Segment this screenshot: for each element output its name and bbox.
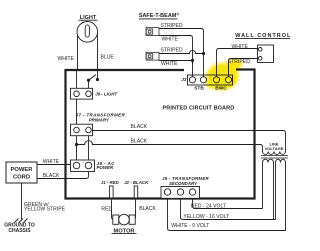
svg-text:WHITE: WHITE: [232, 44, 249, 50]
wall control box: [258, 45, 274, 63]
wire striped sensor1: [159, 29, 204, 54]
wire white bulb lead: [76, 70, 78, 94]
svg-text:CORD: CORD: [13, 175, 30, 181]
safe-t-beam sensor 1: [146, 28, 159, 36]
svg-text:YELLOW STRIPE: YELLOW STRIPE: [24, 206, 66, 212]
svg-text:WHITE: WHITE: [58, 56, 75, 62]
svg-text:STB: STB: [194, 86, 204, 92]
wire black lower with hop to transformer: [77, 141, 263, 152]
svg-text:J3: J3: [181, 77, 186, 82]
wire striped sensor2 with hop: [159, 50, 204, 76]
underline LIGHT: [79, 19, 98, 21]
wire red to motor: [112, 200, 114, 219]
connector J1: [110, 186, 114, 198]
svg-text:STRIPED: STRIPED: [228, 59, 250, 65]
junction dot A: [87, 79, 90, 82]
svg-text:VOLTAGE: VOLTAGE: [265, 146, 284, 151]
printed circuit board outline: [66, 70, 255, 199]
transformer core: [261, 156, 288, 159]
svg-text:RED - 24 VOLT: RED - 24 VOLT: [191, 203, 226, 209]
svg-text:PRIMARY: PRIMARY: [89, 117, 110, 122]
svg-text:LIGHT: LIGHT: [80, 15, 97, 21]
wire white sensor2: [159, 61, 193, 65]
connector J8 - AC POWER: [71, 160, 95, 172]
svg-text:POWER: POWER: [97, 165, 114, 170]
yellow highlighter blob over BWC terminals: [206, 56, 244, 90]
svg-text:BLACK: BLACK: [131, 124, 148, 130]
light bulb LIGHT: [77, 22, 98, 43]
connector J3: [188, 75, 233, 85]
svg-text:WALL CONTROL: WALL CONTROL: [235, 33, 291, 39]
bulb filament: [85, 25, 89, 37]
wire wall control white: [217, 49, 261, 77]
svg-text:STRIPED: STRIPED: [161, 23, 183, 29]
chassis ground symbol: [15, 219, 28, 223]
wire green ground: [21, 183, 23, 219]
safe-t-beam sensor 2: [146, 52, 159, 60]
svg-text:BLACK: BLACK: [139, 206, 156, 212]
connector J2: [134, 186, 138, 198]
svg-text:SAFE-T-BEAM®: SAFE-T-BEAM®: [139, 12, 180, 20]
underline SAFE-T-BEAM: [139, 18, 178, 20]
svg-text:SECONDARY: SECONDARY: [169, 181, 198, 186]
wire black upper to transformer: [89, 131, 286, 152]
wire white 0 volt: [168, 195, 286, 231]
svg-text:BLACK: BLACK: [131, 139, 148, 145]
underline MOTOR: [112, 233, 137, 235]
svg-text:MOTOR: MOTOR: [113, 228, 134, 234]
svg-text:BLACK: BLACK: [43, 173, 60, 179]
svg-text:BWC: BWC: [215, 86, 227, 92]
junction dot B: [96, 78, 99, 81]
connector J7 - TRANSFORMER PRIMARY: [71, 124, 93, 136]
underline WALL CONTROL: [235, 38, 290, 40]
motor MOTOR: [113, 215, 119, 224]
power cord box: [6, 162, 37, 183]
transformer secondary winding left: [263, 159, 274, 219]
wire yellow 16 volt: [181, 195, 276, 220]
svg-text:YELLOW - 16 VOLT: YELLOW - 16 VOLT: [183, 214, 229, 220]
svg-text:J9 - LIGHT: J9 - LIGHT: [95, 92, 117, 97]
wire black power cord to J8: [37, 168, 89, 178]
svg-text:STRIPED: STRIPED: [161, 48, 183, 54]
wire wall control striped: [229, 59, 261, 77]
junction dot black: [75, 143, 78, 146]
wire J7 left to J8 left: [76, 130, 78, 166]
connector J9 - LIGHT: [71, 88, 93, 99]
connector J5 - TRANSFORMER SECONDARY: [161, 187, 200, 199]
svg-text:CHASSIS: CHASSIS: [8, 228, 31, 234]
switch blade: [89, 75, 97, 81]
svg-text:BLUE: BLUE: [101, 55, 115, 61]
svg-text:POWER: POWER: [11, 167, 34, 173]
wire white sensor1: [159, 36, 193, 78]
wire J7 right to J8 right: [88, 131, 90, 166]
wire switch to J9: [88, 80, 90, 94]
wire J9 to J7: [76, 94, 78, 130]
svg-text:WHITE: WHITE: [161, 61, 178, 67]
wire blue bulb lead: [97, 70, 99, 80]
junction dot white: [191, 59, 194, 62]
svg-text:WHITE: WHITE: [162, 36, 179, 42]
transformer secondary winding right: [276, 159, 286, 230]
svg-text:WHITE: WHITE: [43, 159, 60, 165]
svg-text:WHITE - 0 VOLT: WHITE - 0 VOLT: [171, 223, 209, 229]
junction dot striped: [202, 52, 205, 55]
wire black to motor: [134, 200, 136, 219]
svg-text:J1 - RED: J1 - RED: [101, 180, 120, 185]
light bulb neck: [78, 33, 98, 70]
svg-text:J2 - BLACK: J2 - BLACK: [124, 180, 149, 185]
svg-text:PRINTED CIRCUIT BOARD: PRINTED CIRCUIT BOARD: [163, 106, 235, 112]
wire white power cord to J8: [37, 164, 77, 166]
svg-text:RED: RED: [101, 206, 112, 212]
transformer primary winding scallops: [263, 152, 286, 155]
wire red 24 volt: [193, 195, 263, 209]
